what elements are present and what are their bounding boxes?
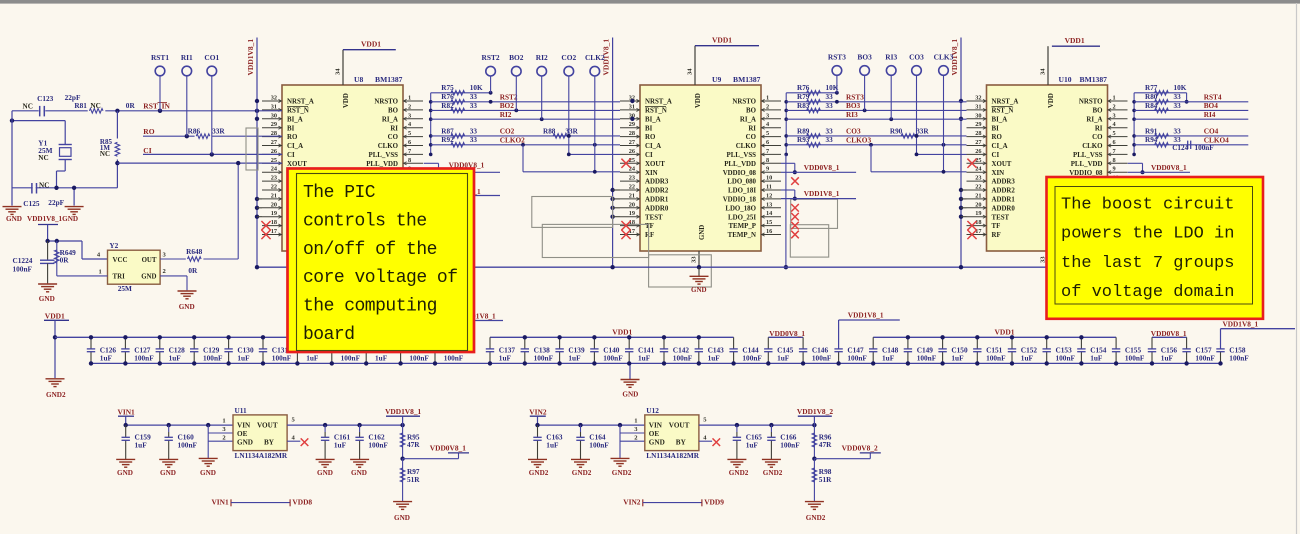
ground below Y2: [178, 290, 197, 292]
svg-text:1: 1: [1113, 95, 1116, 102]
resistor R85 1M: [116, 111, 118, 188]
wire VDD1V8_1 vertical x=257: [256, 38, 258, 268]
svg-text:GND: GND: [649, 439, 665, 447]
svg-text:33: 33: [691, 256, 698, 263]
ground GND mid: [629, 363, 631, 379]
U8 left pins: [262, 100, 282, 102]
svg-text:1: 1: [222, 418, 225, 425]
svg-text:100nF: 100nF: [742, 353, 762, 362]
resistor R94 33 row / net CLKO4: [1134, 144, 1248, 146]
svg-text:R79: R79: [797, 93, 810, 101]
svg-text:VDD1V8_1GND: VDD1V8_1GND: [27, 215, 78, 223]
svg-text:33: 33: [470, 127, 478, 135]
svg-text:GND: GND: [699, 225, 706, 240]
svg-text:100nF: 100nF: [986, 353, 1006, 362]
svg-text:1: 1: [766, 95, 769, 102]
svg-text:VDD1V8_1: VDD1V8_1: [804, 189, 840, 198]
svg-text:R94: R94: [1145, 136, 1158, 144]
capacitor C165: [736, 425, 738, 432]
net VDD1V8_1 riser C158: [1220, 329, 1222, 349]
svg-text:NRSTO: NRSTO: [732, 99, 756, 106]
resistor R95 47R: [402, 425, 404, 459]
annotation box 1: [288, 169, 475, 353]
svg-text:9: 9: [766, 166, 769, 173]
net VDD1V8_1 at U9 pins11-12: [781, 189, 795, 191]
svg-text:VDD0V8_1: VDD0V8_1: [1151, 329, 1187, 338]
capacitor C140 100nF: [593, 337, 595, 349]
svg-text:33: 33: [826, 93, 834, 101]
svg-text:VIN: VIN: [237, 422, 251, 430]
node U8 pullup dots: [255, 99, 259, 103]
capacitor C131 100nF: [262, 337, 264, 349]
svg-text:CI: CI: [287, 152, 295, 159]
svg-text:1uF: 1uF: [638, 353, 651, 362]
svg-text:R84: R84: [1145, 102, 1158, 110]
wire RST_IN top: [12, 110, 282, 112]
svg-text:25M: 25M: [118, 284, 132, 293]
svg-text:CI: CI: [645, 152, 653, 159]
power label VDD1V8_1 at U8 pin12: [455, 195, 500, 197]
resistor R98 51R: [813, 459, 815, 502]
wire U9 GND pin drop: [697, 265, 701, 269]
svg-text:33: 33: [826, 127, 834, 135]
svg-text:1uF: 1uF: [1021, 353, 1034, 362]
capacitor C149 100nF: [907, 337, 909, 349]
wire U9 right vertical down: [785, 154, 787, 267]
svg-text:NC: NC: [39, 181, 49, 189]
Y2 pin1 TRI: [57, 275, 108, 277]
svg-text:RO: RO: [143, 127, 154, 136]
svg-text:R93: R93: [797, 136, 810, 144]
svg-text:BM1387: BM1387: [1080, 75, 1108, 84]
svg-text:0R: 0R: [188, 266, 198, 275]
svg-text:3: 3: [408, 112, 411, 119]
svg-text:100nF: 100nF: [1195, 144, 1215, 152]
svg-text:8: 8: [1113, 157, 1116, 164]
svg-text:33: 33: [470, 136, 478, 144]
svg-text:R87: R87: [441, 127, 454, 135]
svg-text:3: 3: [766, 112, 769, 119]
svg-text:8: 8: [766, 157, 769, 164]
svg-text:47R: 47R: [407, 440, 420, 449]
svg-text:28: 28: [975, 130, 981, 137]
resistor R93 33 row / net CLKO3: [786, 144, 966, 146]
testpoint RI1: [186, 76, 188, 137]
U10 VDD pin 34: [1047, 46, 1049, 85]
rail VDD1 group D: [873, 336, 1116, 338]
svg-text:17: 17: [271, 228, 277, 235]
svg-text:R92: R92: [441, 136, 454, 144]
svg-text:1uF: 1uF: [568, 353, 581, 362]
wire U11 BY pin: [287, 440, 300, 442]
wire CLK2 chain to U9 XIN: [521, 143, 525, 147]
svg-text:1uF: 1uF: [169, 353, 182, 362]
cluster connector vertical: [430, 93, 432, 155]
resistor R82 33 row / net BO2: [431, 109, 620, 111]
resistor R77 10K row: [1134, 92, 1187, 94]
svg-text:ADDR2: ADDR2: [992, 188, 1016, 195]
svg-text:NC: NC: [90, 102, 100, 110]
X marks U9 right pins: [791, 177, 799, 185]
svg-text:BI_A: BI_A: [645, 116, 661, 123]
svg-text:23: 23: [271, 175, 277, 182]
Y2 pin2 GND: [160, 275, 187, 277]
svg-text:PLL_VSS: PLL_VSS: [727, 152, 757, 159]
X marks U9 left pins: [621, 159, 630, 168]
wire U12 BY pin: [699, 440, 712, 442]
svg-text:NRSTO: NRSTO: [374, 99, 398, 106]
svg-text:OUT: OUT: [142, 257, 157, 264]
svg-text:1uF: 1uF: [100, 353, 113, 362]
svg-text:RST_N: RST_N: [287, 108, 309, 115]
cluster connector vertical: [785, 93, 787, 155]
wire crystal top: [12, 120, 65, 122]
svg-text:R80: R80: [1145, 93, 1158, 101]
wire left vertical: [11, 111, 13, 206]
svg-text:on/off of the: on/off of the: [303, 240, 437, 260]
svg-text:ADDR1: ADDR1: [992, 197, 1016, 204]
ground under C159: [116, 458, 135, 460]
testpoints RST3 BO3 RI3 CO3 CLK3: [836, 76, 838, 93]
wire U11 input rail: [126, 424, 233, 426]
node U10 pullup dots: [959, 99, 963, 103]
svg-text:100nF: 100nF: [534, 353, 554, 362]
svg-text:VDDIO_08: VDDIO_08: [723, 170, 757, 177]
svg-text:1uF: 1uF: [708, 353, 721, 362]
ground under C162: [350, 458, 369, 460]
svg-text:11: 11: [766, 184, 772, 191]
svg-text:RO: RO: [645, 134, 656, 141]
svg-text:CO: CO: [746, 134, 757, 141]
svg-text:33R: 33R: [916, 127, 929, 135]
svg-text:of voltage domain: of voltage domain: [1061, 283, 1234, 302]
svg-text:RF: RF: [992, 232, 1001, 239]
svg-text:33: 33: [1174, 93, 1182, 101]
resistor R88 33R: [553, 134, 567, 139]
IC U9 BM1387 body: [640, 85, 761, 251]
svg-text:CLKO: CLKO: [378, 143, 399, 150]
wire crystal right gnd: [73, 188, 75, 206]
svg-text:31: 31: [975, 103, 981, 110]
svg-text:GND: GND: [351, 469, 367, 477]
X marks U8 left pins: [261, 221, 270, 230]
svg-text:VOUT: VOUT: [669, 422, 690, 430]
svg-text:BO3: BO3: [846, 101, 861, 110]
svg-text:BO3: BO3: [857, 52, 872, 61]
svg-text:VDD8: VDD8: [292, 498, 312, 507]
capacitor C142 100nF: [663, 337, 665, 349]
wire U12 OE/GND stubs: [619, 425, 621, 458]
svg-text:CO: CO: [388, 134, 399, 141]
svg-text:R75: R75: [441, 84, 454, 92]
svg-text:1: 1: [99, 269, 102, 276]
LDO U11 box: [233, 415, 287, 451]
svg-text:VDD1: VDD1: [45, 312, 65, 321]
wire XOUT to U8 pin25: [117, 162, 282, 164]
node U9 pullup dots: [630, 99, 634, 103]
capacitor C157 100nF: [1186, 337, 1188, 349]
svg-text:1uF: 1uF: [334, 441, 347, 450]
U10 right pins: [1108, 100, 1128, 102]
svg-text:BI: BI: [287, 125, 295, 132]
svg-text:18: 18: [271, 219, 277, 226]
svg-text:R91: R91: [1145, 127, 1158, 135]
ground under C161: [316, 458, 335, 460]
svg-text:VIN: VIN: [649, 422, 663, 430]
svg-text:TEMP_P: TEMP_P: [728, 223, 756, 230]
svg-text:XOUT: XOUT: [992, 161, 1012, 168]
svg-text:20: 20: [271, 201, 277, 208]
svg-text:TEST: TEST: [645, 214, 663, 221]
oscillator Y2 box: [108, 250, 161, 284]
wire VDD1V8_1 long horizontal y=267: [255, 266, 1047, 268]
U9 VDD pin 34: [694, 46, 696, 85]
svg-text:C124: C124: [1172, 144, 1188, 152]
svg-text:RI4: RI4: [1204, 110, 1216, 119]
svg-text:3: 3: [1113, 112, 1116, 119]
svg-text:CO2: CO2: [500, 127, 515, 136]
gray harness mid A: [532, 197, 613, 228]
gray harness right of U9 B: [790, 225, 828, 257]
wire U11 output rail: [287, 424, 403, 426]
svg-text:28: 28: [629, 130, 635, 137]
svg-text:33R: 33R: [565, 127, 578, 135]
U8 right pins: [403, 100, 423, 102]
svg-text:BM1387: BM1387: [733, 75, 761, 84]
svg-text:27: 27: [975, 139, 981, 146]
svg-text:100nF: 100nF: [444, 353, 464, 362]
svg-text:100nF: 100nF: [368, 441, 388, 450]
svg-text:GND2: GND2: [729, 469, 749, 477]
svg-text:1uF: 1uF: [951, 353, 964, 362]
svg-text:7: 7: [408, 148, 411, 155]
svg-text:9: 9: [1113, 166, 1116, 173]
svg-text:XOUT: XOUT: [645, 161, 665, 168]
svg-text:CI_A: CI_A: [287, 143, 303, 150]
svg-text:ADDR3: ADDR3: [992, 179, 1016, 186]
svg-text:2: 2: [766, 103, 769, 110]
svg-text:The PIC: The PIC: [303, 183, 376, 203]
gray harness mid B: [542, 224, 648, 257]
svg-text:RST3: RST3: [828, 52, 846, 61]
svg-text:ADDR0: ADDR0: [645, 205, 669, 212]
svg-text:CLK3: CLK3: [934, 52, 954, 61]
svg-text:100nF: 100nF: [134, 353, 154, 362]
capacitor C141 1uF: [628, 337, 630, 349]
capacitor C1224 100nF: [47, 241, 49, 260]
capacitor C125: [31, 183, 33, 194]
svg-text:XIN: XIN: [645, 170, 658, 177]
svg-text:GND2: GND2: [763, 469, 783, 477]
svg-text:100nF: 100nF: [589, 441, 609, 450]
svg-text:TEMP_N: TEMP_N: [728, 232, 756, 239]
svg-text:BO: BO: [1093, 108, 1104, 115]
svg-text:100nF: 100nF: [272, 353, 292, 362]
svg-text:1uF: 1uF: [1090, 353, 1103, 362]
svg-text:100nF: 100nF: [780, 441, 800, 450]
testpoint RST1: [159, 76, 161, 111]
svg-text:VDD0V8_1: VDD0V8_1: [430, 444, 466, 453]
power label VDD1V8_1 partial above C136: [474, 320, 503, 322]
svg-text:RI: RI: [748, 125, 756, 132]
svg-text:10K: 10K: [1174, 84, 1187, 92]
svg-text:U8: U8: [354, 75, 363, 84]
svg-text:GND: GND: [141, 273, 156, 280]
U10 left pins: [967, 100, 987, 102]
capacitor C132 1uF: [296, 337, 298, 349]
svg-text:U11: U11: [235, 406, 248, 415]
power flag VDD1V8_1GND: [38, 224, 58, 226]
resistor R84 33 row / net BO4: [1134, 109, 1248, 111]
svg-text:CI: CI: [992, 152, 1000, 159]
svg-text:1uF: 1uF: [1161, 353, 1174, 362]
svg-text:51R: 51R: [407, 475, 420, 484]
svg-text:1uF: 1uF: [499, 353, 512, 362]
net VDD0V8_1 at U10 pins8-9: [1128, 162, 1143, 164]
wire U12 output rail: [699, 424, 815, 426]
U9 GND pin 33: [698, 251, 700, 268]
svg-text:100nF: 100nF: [917, 353, 937, 362]
svg-text:1uF: 1uF: [882, 353, 895, 362]
svg-text:100nF: 100nF: [1056, 353, 1076, 362]
capacitor C124 100nF: [1187, 141, 1189, 149]
svg-text:RI_A: RI_A: [740, 116, 756, 123]
U8 VDD pin 34: [342, 50, 344, 85]
svg-text:33: 33: [1174, 127, 1182, 135]
svg-text:PLL_VDD: PLL_VDD: [1071, 161, 1103, 168]
svg-text:34: 34: [1040, 68, 1047, 75]
ground under C163: [528, 458, 547, 460]
svg-text:30: 30: [271, 112, 277, 119]
svg-text:6: 6: [1113, 139, 1116, 146]
LDO U12 box: [645, 415, 699, 451]
svg-text:30: 30: [975, 112, 981, 119]
svg-text:LDO_18I: LDO_18I: [728, 188, 756, 195]
svg-text:RI_A: RI_A: [382, 116, 398, 123]
resistor R80 33 row / net RST4: [1134, 101, 1248, 103]
svg-text:CO3: CO3: [909, 52, 924, 61]
testpoint CO1: [211, 76, 213, 155]
svg-text:VDD0V8_1: VDD0V8_1: [1151, 163, 1187, 172]
svg-text:GND: GND: [117, 469, 133, 477]
svg-text:VDD0V8_2: VDD0V8_2: [842, 444, 878, 453]
capacitor C128 1uF: [159, 337, 161, 349]
wire CLK3 chain to U10 XIN: [869, 143, 873, 147]
U9 RST_N overline: [645, 106, 666, 108]
svg-text:19: 19: [975, 210, 981, 217]
capacitor C152 1uF: [1011, 337, 1013, 349]
svg-text:BO2: BO2: [509, 53, 524, 62]
svg-text:100nF: 100nF: [1229, 353, 1249, 362]
svg-text:RO: RO: [287, 134, 298, 141]
net VDD0V8_1 tap: [403, 458, 459, 460]
svg-text:BI_A: BI_A: [992, 116, 1008, 123]
svg-text:RO: RO: [992, 134, 1003, 141]
svg-text:RI_A: RI_A: [1086, 116, 1102, 123]
wire net RI4 row: [1134, 118, 1248, 120]
svg-text:21: 21: [975, 192, 981, 199]
svg-text:22pF: 22pF: [48, 198, 64, 207]
svg-text:15: 15: [766, 219, 772, 226]
ground GND2 left: [46, 378, 65, 380]
wire U11 OE/GND stubs: [207, 425, 209, 458]
svg-text:13: 13: [766, 201, 772, 208]
capacitor C130 1uF: [228, 337, 230, 349]
svg-text:R648: R648: [186, 247, 203, 256]
svg-text:2: 2: [408, 103, 411, 110]
wire CO2 chain to U9 CI: [568, 136, 570, 155]
svg-text:100nF: 100nF: [603, 353, 623, 362]
ground below R97: [393, 501, 412, 503]
svg-text:R83: R83: [797, 102, 810, 110]
svg-text:VOUT: VOUT: [257, 422, 278, 430]
wire RO line: [143, 135, 282, 137]
svg-text:NC: NC: [100, 150, 110, 158]
svg-text:NRST_A: NRST_A: [287, 99, 314, 106]
svg-text:26: 26: [629, 148, 635, 155]
ground below C1224: [38, 283, 57, 285]
svg-text:5: 5: [1113, 130, 1116, 137]
svg-text:CI_A: CI_A: [645, 143, 661, 150]
svg-text:100nF: 100nF: [409, 353, 429, 362]
capacitor C164: [580, 425, 582, 432]
IC U10 BM1387 body: [987, 85, 1108, 251]
svg-text:10: 10: [766, 175, 772, 182]
cluster connector vertical: [1133, 93, 1135, 155]
net VDD0V8_1 at U8 pins8-9: [424, 162, 439, 164]
svg-text:22: 22: [629, 184, 635, 191]
svg-text:2: 2: [1113, 103, 1116, 110]
svg-text:CO1: CO1: [204, 53, 219, 62]
svg-text:CO3: CO3: [846, 127, 861, 136]
svg-text:16: 16: [766, 228, 772, 235]
svg-text:1uF: 1uF: [375, 353, 388, 362]
svg-text:GND: GND: [160, 469, 176, 477]
svg-text:GND: GND: [691, 286, 707, 294]
svg-text:19: 19: [629, 210, 635, 217]
capacitor C162: [359, 425, 361, 432]
svg-text:VDD1: VDD1: [1065, 36, 1085, 45]
svg-text:1uF: 1uF: [777, 353, 790, 362]
resistor R83 33 row / net BO3: [786, 109, 966, 111]
svg-text:GND: GND: [237, 439, 253, 447]
svg-text:22: 22: [271, 184, 277, 191]
svg-text:NRST_A: NRST_A: [645, 99, 672, 106]
resistor R79 33 row / net RST3: [786, 101, 966, 103]
svg-text:100nF: 100nF: [812, 353, 832, 362]
svg-text:GND: GND: [200, 469, 216, 477]
node U10 ADDR dots: [959, 188, 963, 192]
svg-text:47R: 47R: [819, 440, 832, 449]
svg-text:NRST_A: NRST_A: [992, 99, 1019, 106]
svg-text:GND2: GND2: [572, 469, 592, 477]
svg-text:GND: GND: [39, 295, 55, 303]
capacitor C161: [324, 425, 326, 432]
svg-text:BM1387: BM1387: [375, 75, 403, 84]
svg-text:29: 29: [629, 121, 635, 128]
svg-text:The boost circuit: The boost circuit: [1061, 196, 1234, 215]
svg-text:BI: BI: [992, 125, 1000, 132]
capacitor C127 100nF: [124, 337, 126, 349]
U10 GND pin 33: [1047, 251, 1049, 268]
svg-text:BO: BO: [746, 108, 757, 115]
top gray bar: [0, 0, 1300, 4]
svg-text:18: 18: [975, 219, 981, 226]
U9 left pins: [620, 100, 640, 102]
svg-text:32: 32: [975, 95, 981, 102]
svg-text:U12: U12: [646, 406, 659, 415]
svg-text:PLL_VDD: PLL_VDD: [366, 161, 398, 168]
